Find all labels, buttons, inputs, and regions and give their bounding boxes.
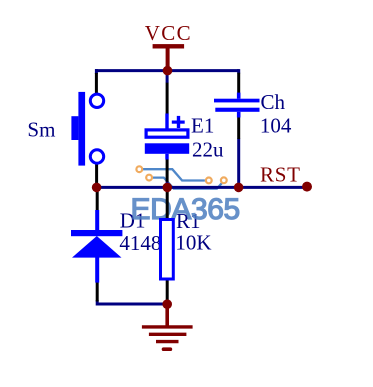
pin R1 top bbox=[166, 189, 169, 220]
svg-text:Sm: Sm bbox=[27, 117, 55, 141]
watermark logo pads and traces bbox=[136, 166, 226, 188]
pin Ch bottom bbox=[237, 117, 240, 139]
value 104 label bbox=[260, 114, 292, 138]
watermark text EDA365 bbox=[131, 193, 240, 226]
wire D1 bottom to ground horizontal bbox=[97, 300, 167, 304]
pin D1 bottom bbox=[96, 282, 99, 302]
ground symbol bbox=[142, 304, 193, 349]
net label RST bbox=[260, 163, 301, 187]
svg-text:Ch: Ch bbox=[261, 90, 286, 114]
pin E1 top bbox=[166, 83, 169, 115]
value 22u label bbox=[192, 138, 224, 162]
svg-text:104: 104 bbox=[260, 114, 292, 138]
svg-text:4148: 4148 bbox=[119, 231, 161, 255]
wire E1 top stub bbox=[166, 71, 169, 83]
junction Sm / bottom rail bbox=[92, 183, 102, 193]
node RST endpoint bbox=[302, 182, 312, 192]
pin Sm top bbox=[95, 73, 98, 93]
value 4148 label bbox=[119, 231, 161, 255]
power VCC symbol bbox=[145, 21, 192, 71]
pin R1 bottom bbox=[166, 280, 169, 303]
designator D1 label bbox=[120, 208, 146, 232]
designator Sm label bbox=[27, 117, 55, 141]
svg-text:VCC: VCC bbox=[145, 21, 192, 45]
pin D1 top bbox=[96, 187, 99, 211]
pin Sm bottom bbox=[95, 164, 98, 185]
designator Ch label bbox=[261, 90, 286, 114]
wire Ch to RST rail bbox=[237, 139, 240, 188]
junction ground node bbox=[162, 299, 172, 309]
svg-text:EDA365: EDA365 bbox=[131, 193, 240, 226]
wire bottom rail RST net bbox=[95, 186, 307, 189]
junction Ch / bottom rail bbox=[234, 183, 244, 193]
svg-text:10K: 10K bbox=[175, 230, 211, 254]
junction E1-R1 / bottom rail bbox=[163, 183, 173, 193]
capacitor E1 electrolytic bbox=[145, 114, 189, 160]
pin E1 bottom bbox=[166, 159, 169, 182]
wire E1 bottom stub bbox=[166, 182, 169, 188]
resistor R1 bbox=[161, 220, 174, 280]
capacitor Ch bbox=[214, 93, 260, 118]
svg-text:RST: RST bbox=[260, 163, 301, 187]
switch Sm bbox=[71, 92, 103, 166]
diode D1 bbox=[71, 210, 122, 283]
wire top-right corner stub bbox=[237, 69, 240, 73]
wire top-left corner stub bbox=[95, 69, 98, 74]
designator R1 label bbox=[176, 209, 201, 233]
pin Ch top bbox=[237, 73, 240, 93]
wire top rail bbox=[95, 69, 239, 72]
svg-text:E1: E1 bbox=[191, 114, 214, 138]
svg-text:22u: 22u bbox=[192, 138, 224, 162]
value 10K label bbox=[175, 230, 211, 254]
designator E1 label bbox=[191, 114, 214, 138]
junction VCC rail bbox=[163, 66, 173, 76]
